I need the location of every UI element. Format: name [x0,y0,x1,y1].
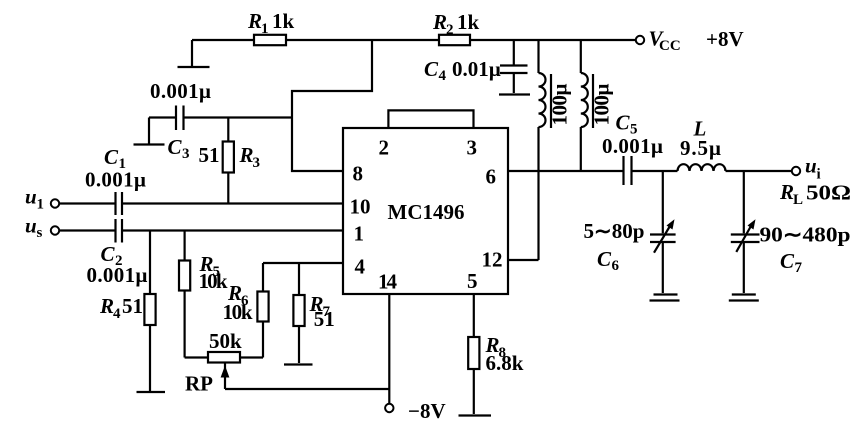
svg-text:C: C [616,111,631,135]
label C5 [616,111,638,138]
label ui [805,154,821,183]
ground (R4) [137,391,166,393]
terminal -8V [385,404,393,412]
svg-text:51: 51 [314,307,335,331]
svg-text:0.001µ: 0.001µ [150,79,211,103]
label R4 51 [99,294,143,322]
svg-text:9.5µ: 9.5µ [680,136,721,160]
rf choke 1 core bar [550,74,552,128]
label R2 1k [432,10,480,38]
svg-text:R: R [247,9,262,33]
svg-text:C: C [597,247,612,271]
svg-text:100µ: 100µ [548,84,572,126]
svg-text:51: 51 [199,143,220,167]
resistor R8 [468,337,479,369]
label C6 [597,247,620,274]
svg-text:0.001µ: 0.001µ [87,263,148,287]
label R1 1k [247,9,295,37]
svg-text:0.001µ: 0.001µ [602,134,663,158]
label R7 [309,292,331,320]
capacitor C5 [624,156,632,185]
svg-text:1k: 1k [457,10,480,34]
resistor R5 [179,231,190,358]
svg-text:4: 4 [355,255,366,279]
svg-text:0.01µ: 0.01µ [452,57,501,81]
svg-text:2: 2 [379,136,390,160]
label C1 [104,145,126,172]
svg-text:1k: 1k [272,9,295,33]
svg-text:4: 4 [113,306,121,322]
svg-text:R: R [239,143,254,167]
resistor R7 [293,263,304,363]
rf choke 2 coil 100u [581,73,588,127]
svg-text:CC: CC [659,38,681,54]
wire: pin 14 to -8V terminal [388,294,390,404]
svg-text:3: 3 [467,136,478,160]
svg-text:C: C [168,135,183,159]
ground (C7) [729,295,759,301]
wire: rail to choke 1 [537,40,539,73]
variable capacitor C7 [731,171,760,293]
svg-text:s: s [37,225,43,241]
svg-text:1: 1 [261,21,269,37]
svg-text:50k: 50k [209,329,242,353]
wire: us to C2 [59,229,115,231]
svg-text:0.001µ: 0.001µ [85,168,146,192]
svg-text:100µ: 100µ [590,84,614,126]
ground (C4) [499,93,530,95]
svg-text:6.8k: 6.8k [486,351,524,375]
wire: pin 5 lead [473,294,475,414]
svg-text:C: C [104,145,119,169]
svg-text:1: 1 [37,197,45,213]
ground (R7) [284,363,313,365]
svg-text:3: 3 [253,155,261,171]
svg-text:8: 8 [353,162,364,186]
capacitor C3 [149,106,292,131]
svg-text:3: 3 [182,146,190,162]
svg-text:10k: 10k [223,300,253,324]
svg-text:−8V: −8V [408,399,446,423]
wire: rail to choke 2 [580,40,582,73]
svg-text:6: 6 [486,165,497,189]
label C7 [780,249,803,276]
rf choke 1 coil 100u [539,73,546,127]
svg-text:u: u [805,154,817,178]
wire: C1 to pin 10 [122,202,343,204]
label R8 [485,333,507,361]
svg-text:MC1496: MC1496 [388,200,465,224]
label RL 50ohm [779,180,851,208]
inductor L 9.5u [678,164,726,171]
capacitor C4 [500,40,528,93]
label u1 [25,185,44,213]
resistor R4 [144,231,155,392]
label R3 [239,143,261,171]
wire: choke 2 to pin 6 line [580,127,582,171]
ground (C6) [650,295,680,301]
svg-text:6: 6 [612,258,620,274]
jumper between pins 2 and 3 [388,110,473,128]
capacitor C1 [116,192,123,215]
label R5 [199,252,221,280]
variable capacitor C6 [650,171,676,293]
IC U1 MC1496 [343,128,508,294]
svg-text:u: u [25,185,37,209]
terminal ui [792,167,800,175]
resistor R2 [439,35,470,45]
svg-text:7: 7 [795,260,803,276]
wire: pin 4 lead [263,262,343,264]
label R6 [227,281,249,309]
svg-text:C: C [780,249,795,273]
terminal VCC [636,36,644,44]
svg-text:+8V: +8V [706,27,744,51]
svg-text:10: 10 [350,195,371,219]
svg-text:L: L [793,192,803,208]
ground (R8) [459,414,492,416]
svg-text:50Ω: 50Ω [806,181,851,205]
svg-text:12: 12 [482,248,503,272]
svg-text:RP: RP [185,372,213,396]
capacitor C2 [116,219,123,243]
label VCC [649,27,681,55]
svg-text:u: u [25,214,37,238]
svg-text:5∼80p: 5∼80p [584,219,645,243]
input terminal u1 [51,199,59,207]
label us [25,214,43,242]
wire: branch from rail to pin 8 [292,40,372,171]
ground (left end of supply rail) [178,40,210,67]
svg-text:4: 4 [439,68,447,84]
wire: C2 to pin 1 [122,229,343,231]
resistor R6 [257,263,268,358]
wire: top supply rail [192,39,636,41]
resistor R1 [254,35,286,45]
svg-text:14: 14 [378,270,398,294]
label C3 [168,135,190,162]
svg-text:2: 2 [446,22,454,38]
svg-text:5: 5 [467,269,478,293]
svg-text:10k: 10k [199,269,228,293]
wire: C5 to L [632,170,678,172]
rf choke 2 core bar [592,74,594,128]
wire: wiper to negative supply node [225,388,389,390]
wire: pin 6 lead to C5 [508,170,624,172]
svg-text:R: R [779,180,794,204]
input terminal us [51,226,59,234]
svg-text:90∼480p: 90∼480p [760,223,851,247]
resistor R3 [223,118,234,204]
label C4 0.01u [424,57,501,84]
wire: u1 to C1 [59,202,115,204]
wire: choke 1 to pin 6 node and pin 12 [508,127,539,260]
potentiometer RP 50k [185,352,263,389]
svg-text:51: 51 [122,294,143,318]
wire: L to output terminal [726,170,792,172]
label C2 [101,242,123,269]
ground (C3 left plate) [134,118,165,145]
svg-text:R: R [99,294,114,318]
svg-text:C: C [424,57,439,81]
svg-text:R: R [432,10,447,34]
svg-text:1: 1 [354,222,365,246]
